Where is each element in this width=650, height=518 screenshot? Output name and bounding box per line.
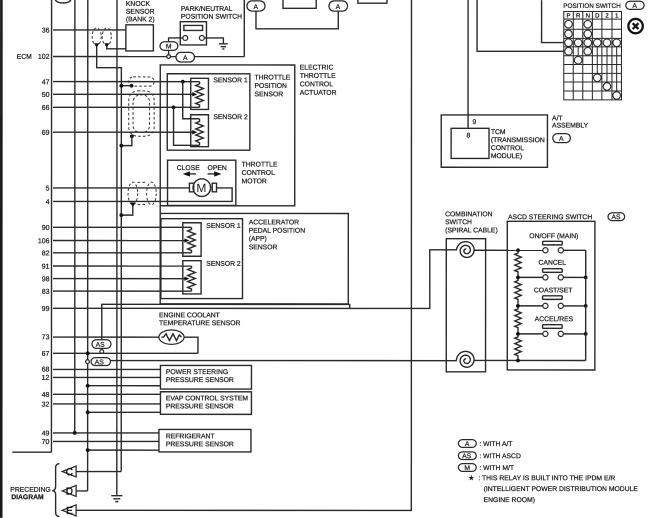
wire pin 32 bbox=[53, 403, 161, 405]
position switch column link D bbox=[596, 43, 598, 78]
svg-text:(SPIRAL CABLE): (SPIRAL CABLE) bbox=[445, 227, 498, 234]
wire C to drain bus bbox=[76, 471, 121, 473]
knock sensor shield ring 1 bbox=[92, 28, 101, 46]
ASCD steering switch box bbox=[507, 221, 595, 370]
wire AS1 to ASCD feed bbox=[102, 304, 350, 339]
AS option oval 1 bbox=[92, 340, 111, 349]
junction on drain bus bbox=[119, 213, 123, 217]
junction on resistor column bbox=[516, 275, 520, 279]
APP sensor 2 box bbox=[183, 261, 201, 294]
svg-text:A: A bbox=[253, 4, 258, 11]
svg-text:POSITION SWITCH: POSITION SWITCH bbox=[181, 14, 242, 21]
legend star note bbox=[468, 474, 638, 504]
svg-text:SENSOR 2: SENSOR 2 bbox=[213, 114, 248, 121]
svg-text:SENSOR 1: SENSOR 1 bbox=[206, 223, 241, 230]
svg-text:ELECTRIC: ELECTRIC bbox=[300, 64, 334, 71]
svg-text:50: 50 bbox=[42, 92, 50, 99]
wire pin 68 bbox=[53, 368, 161, 370]
svg-text:A: A bbox=[559, 136, 564, 143]
wire pin 4 to motor bbox=[53, 188, 232, 202]
TPS lower shield drain connection bbox=[130, 134, 134, 138]
cut-off box fragment top right of centre bbox=[358, 0, 387, 3]
junction on resistor column bbox=[516, 304, 520, 308]
svg-text:98: 98 bbox=[42, 276, 50, 283]
ACCEL contact right bbox=[558, 331, 563, 336]
accelerator pedal position sensor outer box bbox=[160, 206, 348, 304]
CANCEL contact right bbox=[558, 275, 563, 280]
svg-text:36: 36 bbox=[42, 28, 50, 35]
connector triangle D bbox=[62, 485, 76, 497]
svg-text:EVAP CONTROL SYSTEM: EVAP CONTROL SYSTEM bbox=[166, 395, 249, 402]
wire spiral top to ON/OFF bbox=[474, 249, 543, 251]
AS option oval 2 bbox=[91, 358, 110, 367]
legend AS oval bbox=[458, 452, 521, 460]
wire CANCEL right to bus bbox=[563, 276, 585, 278]
svg-text:4: 4 bbox=[46, 199, 50, 206]
svg-text:A: A bbox=[183, 55, 188, 62]
motor shield drain triangle bbox=[130, 203, 136, 207]
svg-text:ASCD STEERING SWITCH: ASCD STEERING SWITCH bbox=[508, 214, 592, 221]
ECM U1 right edge bbox=[50, 0, 52, 452]
junction on right bus bbox=[584, 304, 588, 308]
wire bus B stub to refrigerant sensor bbox=[88, 449, 159, 451]
power steering pressure sensor box bbox=[160, 365, 251, 389]
svg-text:: WITH ASCD: : WITH ASCD bbox=[479, 453, 521, 460]
svg-text:102: 102 bbox=[38, 54, 50, 61]
svg-text:69: 69 bbox=[42, 130, 50, 137]
wire E across bottom bbox=[76, 0, 411, 510]
svg-text:AS: AS bbox=[612, 214, 622, 221]
svg-text:SENSOR: SENSOR bbox=[254, 91, 283, 98]
shield drain bus wire (x=121.3) bbox=[97, 46, 122, 471]
wire pin 36 to knock sensor bbox=[53, 29, 126, 31]
svg-text:SENSOR: SENSOR bbox=[126, 9, 155, 16]
svg-text:83: 83 bbox=[42, 289, 50, 296]
svg-text:47: 47 bbox=[42, 79, 50, 86]
svg-text:DIAGRAM: DIAGRAM bbox=[11, 494, 44, 501]
wire TPS lower shield drain to bus bbox=[121, 136, 132, 145]
svg-text:D: D bbox=[595, 13, 600, 20]
svg-text:CONTROL: CONTROL bbox=[242, 170, 275, 177]
svg-text:CONTROL: CONTROL bbox=[491, 145, 524, 152]
svg-text:PRECEDING: PRECEDING bbox=[10, 487, 50, 494]
motor brush right bbox=[212, 183, 216, 192]
A option oval at position switch bbox=[626, 1, 644, 10]
svg-text:: WITH A/T: : WITH A/T bbox=[479, 441, 512, 448]
wire ACCEL left bbox=[518, 333, 543, 335]
svg-text:ENGINE COOLANT: ENGINE COOLANT bbox=[159, 312, 220, 319]
APP sensors box bbox=[161, 219, 243, 299]
svg-text:CANCEL: CANCEL bbox=[538, 260, 566, 267]
svg-text:67: 67 bbox=[42, 351, 50, 358]
svg-text:OPEN: OPEN bbox=[208, 165, 227, 172]
option connector circle left of AS2 bbox=[86, 360, 90, 364]
shield drain triangle left bbox=[94, 43, 99, 47]
wire pin 73 to coolant sensor bbox=[53, 336, 159, 338]
svg-text:D: D bbox=[66, 487, 73, 498]
svg-text:: THIS RELAY IS BUILT INTO THE: : THIS RELAY IS BUILT INTO THE IPDM E/R bbox=[478, 475, 615, 482]
shield drain triangle right bbox=[104, 43, 109, 47]
TPS shield drain connection bbox=[130, 84, 134, 88]
TPS sensor 2 box bbox=[191, 115, 209, 147]
park/neutral switch slot bbox=[184, 25, 203, 30]
ACCEL contact left bbox=[543, 331, 548, 336]
wire 102 riser to top bbox=[243, 0, 245, 57]
wire pin 83 bbox=[53, 290, 192, 292]
svg-text:2: 2 bbox=[605, 13, 609, 20]
option connector circle on wire 102 bbox=[167, 55, 171, 59]
svg-text:91: 91 bbox=[42, 264, 50, 271]
park/neutral contact right bbox=[199, 36, 204, 41]
wire pin 5 to motor bbox=[53, 187, 189, 189]
junction on bus B bbox=[86, 410, 90, 414]
svg-text:1: 1 bbox=[615, 13, 619, 20]
wire pin 49 bbox=[53, 432, 159, 434]
svg-text:A: A bbox=[336, 4, 341, 11]
svg-text:(INTELLIGENT POWER DISTRIBUTIO: (INTELLIGENT POWER DISTRIBUTION MODULE bbox=[484, 486, 639, 493]
TPS shield tube lower inner bbox=[133, 95, 150, 133]
wire pin 50 bbox=[53, 93, 194, 95]
svg-text:ACTUATOR: ACTUATOR bbox=[300, 90, 337, 97]
svg-text:SWITCH: SWITCH bbox=[445, 219, 472, 226]
svg-text:A: A bbox=[632, 3, 637, 10]
svg-text:COAST/SET: COAST/SET bbox=[534, 287, 573, 294]
svg-text:5: 5 bbox=[46, 186, 50, 193]
junction wire 49 and bus A bbox=[73, 431, 77, 435]
cut-off box fragment top middle bbox=[283, 0, 316, 8]
wiper arrow APP sensor 2 bbox=[184, 276, 189, 280]
junction on bus B bbox=[86, 448, 90, 452]
wire bracket linking A ovals bbox=[256, 11, 338, 29]
refrigerant pressure sensor box bbox=[159, 429, 251, 452]
svg-text:9: 9 bbox=[472, 119, 476, 126]
throttle motor M1 circle bbox=[193, 179, 211, 197]
wire pin 66 bbox=[53, 106, 200, 108]
legend M oval bbox=[458, 464, 514, 472]
wire AS2 to spiral cable bbox=[110, 360, 456, 362]
svg-text:M: M bbox=[196, 181, 206, 195]
svg-text:SENSOR 1: SENSOR 1 bbox=[213, 77, 248, 84]
COAST contact right bbox=[558, 303, 563, 308]
spiral cable coil top bbox=[456, 242, 474, 258]
svg-text:POWER STEERING: POWER STEERING bbox=[166, 369, 228, 376]
ASCD right return bus bbox=[585, 250, 587, 360]
wiper arrow sensor 2 bbox=[192, 130, 197, 134]
wire spiral bottom to return bus bbox=[473, 359, 585, 361]
junction wire 47 to sensor2 feed bbox=[181, 80, 185, 84]
wire pin 70 bbox=[53, 440, 159, 442]
junction on bus B bbox=[86, 384, 90, 388]
close arrow bbox=[183, 171, 196, 176]
CANCEL contact left bbox=[543, 275, 548, 280]
vertical bus wire C to ground (x=116.9) bbox=[116, 0, 118, 495]
wire TPS shield stub to drain bus bbox=[121, 85, 131, 87]
wire pin 91 bbox=[53, 265, 191, 267]
wire COAST right to bus bbox=[563, 305, 585, 307]
svg-text:ENGINE ROOM): ENGINE ROOM) bbox=[484, 497, 535, 504]
wire TCM feed bbox=[467, 0, 469, 128]
svg-text:P: P bbox=[566, 13, 571, 20]
wire pin 106 bbox=[53, 240, 186, 242]
svg-text:E: E bbox=[66, 506, 73, 517]
COAST/SET switch capsule bbox=[543, 296, 563, 300]
wire ACCEL right to bus bbox=[563, 333, 585, 335]
svg-text:AS: AS bbox=[462, 453, 472, 460]
svg-text:POSITION SWITCH: POSITION SWITCH bbox=[563, 3, 621, 10]
wire pin 82 bbox=[53, 252, 191, 254]
junction on drain bus bbox=[119, 144, 123, 148]
wire pin 90 bbox=[53, 226, 191, 228]
svg-text:N: N bbox=[585, 13, 590, 20]
svg-text:THROTTLE: THROTTLE bbox=[242, 161, 278, 168]
legend A oval bbox=[458, 440, 512, 448]
vertical bus wire B (x=87.7) bbox=[87, 0, 89, 491]
M option oval bbox=[160, 42, 178, 55]
svg-text:A: A bbox=[465, 441, 470, 448]
svg-text:AS: AS bbox=[95, 359, 105, 366]
svg-text:PRESSURE SENSOR: PRESSURE SENSOR bbox=[166, 403, 234, 410]
svg-text:106: 106 bbox=[38, 238, 50, 245]
connector oval fragment at top edge bbox=[55, 0, 70, 3]
vertical bus wire A (x=74.8) bbox=[74, 0, 76, 433]
junction on right bus bbox=[584, 275, 588, 279]
svg-text:70: 70 bbox=[42, 439, 50, 446]
TCM outer box bbox=[441, 115, 547, 167]
ON/OFF contact right bbox=[558, 248, 563, 253]
page left border bar bbox=[0, 0, 3, 518]
svg-text:ECM: ECM bbox=[17, 54, 32, 61]
svg-text:★: ★ bbox=[468, 474, 474, 482]
A option oval on wire 102 bbox=[176, 52, 195, 62]
wire pin 12 bbox=[53, 376, 161, 378]
svg-text:(APP): (APP) bbox=[249, 236, 267, 243]
position switch header letters bbox=[566, 13, 619, 20]
COAST contact left bbox=[543, 303, 548, 308]
position switch column link 2 bbox=[606, 43, 608, 87]
wire bus B stub to power steering sensor bbox=[88, 385, 161, 387]
svg-text:THROTTLE: THROTTLE bbox=[300, 73, 336, 80]
svg-text:AS: AS bbox=[96, 342, 106, 349]
svg-text:C: C bbox=[66, 467, 73, 478]
A option oval top-right bbox=[329, 1, 348, 11]
svg-text:MODULE): MODULE) bbox=[491, 153, 522, 160]
TPS sensor 1 box bbox=[191, 78, 209, 109]
svg-text:A/T: A/T bbox=[552, 115, 563, 122]
svg-text:SENSOR 2: SENSOR 2 bbox=[206, 261, 241, 268]
wire sensor 2 supply feed bbox=[183, 82, 200, 119]
A option oval at A/T assembly bbox=[553, 134, 571, 143]
junction wire 66 branch bbox=[172, 105, 176, 109]
junction resistor ladder bottom bbox=[516, 359, 520, 363]
wire bus B stub to EVAP sensor bbox=[88, 411, 161, 413]
svg-text:REFRIGERANT: REFRIGERANT bbox=[166, 433, 215, 440]
svg-text:8: 8 bbox=[467, 133, 471, 140]
svg-text:KNOCK: KNOCK bbox=[126, 1, 151, 8]
wire ON/OFF right to bus bbox=[563, 249, 585, 251]
svg-text:PEDAL POSITION: PEDAL POSITION bbox=[249, 228, 305, 235]
APP sensor 1 resistor R3 bbox=[188, 227, 196, 253]
connector triangle C bbox=[62, 466, 76, 478]
wiper arrow APP sensor 1 bbox=[184, 238, 189, 242]
wire COAST left bbox=[518, 305, 543, 307]
position switch column link 1 bbox=[616, 43, 618, 96]
position switch contacts bbox=[565, 20, 621, 99]
knock sensor K1 box bbox=[126, 25, 154, 51]
wire 66 branch to sensor 2 low bbox=[174, 107, 200, 145]
circled X symbol bbox=[628, 19, 642, 33]
CANCEL switch capsule bbox=[543, 269, 563, 273]
svg-text:73: 73 bbox=[42, 334, 50, 341]
AS option oval at ASCD switch bbox=[608, 213, 625, 221]
wire pin 69 bbox=[53, 131, 194, 133]
wire right contact to ground bbox=[204, 38, 223, 44]
svg-text:68: 68 bbox=[42, 367, 50, 374]
wire shield drain right to knock sensor case bbox=[107, 46, 126, 48]
motor shield ring 2 bbox=[147, 182, 157, 205]
motor shield ring 1 bbox=[128, 182, 138, 205]
spiral cable coil bottom bbox=[456, 351, 474, 367]
junction at resistor column top bbox=[516, 248, 520, 252]
svg-text:SENSOR: SENSOR bbox=[249, 244, 278, 251]
svg-text:32: 32 bbox=[42, 402, 50, 409]
svg-text:POSITION: POSITION bbox=[254, 83, 287, 90]
wire thermistor return to pin 67 bbox=[184, 337, 198, 353]
wire motor shield drain to bus bbox=[121, 205, 133, 215]
ground symbol at park/neutral switch bbox=[219, 44, 228, 49]
svg-text:ASSEMBLY: ASSEMBLY bbox=[552, 122, 589, 129]
svg-text:M: M bbox=[464, 465, 470, 472]
knock sensor shield ring 2 bbox=[102, 28, 111, 46]
svg-text:TCM: TCM bbox=[491, 129, 506, 136]
ASCD resistor ladder bbox=[515, 250, 521, 360]
wire left contact to M oval bbox=[169, 38, 183, 42]
svg-text:90: 90 bbox=[42, 225, 50, 232]
TPS sensor 1 resistor R1 bbox=[196, 82, 204, 108]
svg-text:COMBINATION: COMBINATION bbox=[445, 211, 493, 218]
combination switch spiral cable box bbox=[446, 239, 485, 372]
svg-text:49: 49 bbox=[42, 431, 50, 438]
junction on drain bus bbox=[119, 84, 123, 88]
A option oval top-left bbox=[247, 1, 265, 11]
throttle control motor box bbox=[168, 160, 236, 205]
motor brush left bbox=[189, 183, 193, 192]
svg-text:PARK/NEUTRAL: PARK/NEUTRAL bbox=[181, 6, 233, 13]
position switch column link R bbox=[577, 43, 579, 60]
ground symbol G2 bbox=[111, 496, 122, 502]
coolant sensor thermistor RT1 bbox=[159, 330, 184, 344]
svg-text:ACCELERATOR: ACCELERATOR bbox=[249, 219, 299, 226]
svg-text:ACCEL/RES: ACCEL/RES bbox=[535, 316, 574, 323]
ECM U1 bottom edge bbox=[12, 451, 51, 453]
junction on resistor column bbox=[516, 332, 520, 336]
APP sensor 1 box bbox=[183, 223, 201, 257]
svg-text:PRESSURE SENSOR: PRESSURE SENSOR bbox=[166, 441, 234, 448]
ON/OFF switch capsule bbox=[543, 241, 563, 245]
electric throttle control actuator box bbox=[160, 65, 295, 206]
connector triangle E bbox=[62, 505, 76, 517]
wire CANCEL left bbox=[518, 276, 543, 278]
svg-text:99: 99 bbox=[42, 306, 50, 313]
park/neutral position switch S1 box bbox=[180, 22, 206, 45]
wire pin 47 bbox=[53, 81, 199, 83]
ACCEL/RES switch capsule bbox=[543, 325, 563, 329]
wire pin 102 bbox=[53, 56, 244, 58]
preceding diagram brace bbox=[52, 464, 59, 517]
wire pin 98 bbox=[53, 278, 186, 280]
wire D to bus B bbox=[76, 490, 88, 492]
APP sensor 2 resistor R4 bbox=[188, 266, 196, 291]
svg-text:48: 48 bbox=[42, 392, 50, 399]
svg-text:R: R bbox=[576, 13, 581, 20]
svg-text:THROTTLE: THROTTLE bbox=[254, 74, 290, 81]
svg-text:12: 12 bbox=[42, 375, 50, 382]
TPS sensor 2 resistor R2 bbox=[196, 119, 204, 146]
svg-text:66: 66 bbox=[42, 105, 50, 112]
junction wire 67 and bus B bbox=[86, 351, 90, 355]
wire pin 67 bbox=[53, 352, 198, 354]
TPS shield tube upper bbox=[129, 77, 154, 86]
svg-text:PRESSURE SENSOR: PRESSURE SENSOR bbox=[166, 377, 234, 384]
svg-text:ON/OFF (MAIN): ON/OFF (MAIN) bbox=[529, 233, 578, 240]
svg-text:(BANK 2): (BANK 2) bbox=[126, 16, 155, 23]
position switch table grid bbox=[564, 11, 622, 99]
svg-text:MOTOR: MOTOR bbox=[242, 178, 267, 185]
ON/OFF contact left bbox=[543, 248, 548, 253]
EVAP control system pressure sensor box bbox=[160, 392, 251, 415]
open arrow bbox=[208, 171, 222, 176]
junction on right bus bbox=[584, 332, 588, 336]
svg-text:82: 82 bbox=[42, 250, 50, 257]
svg-text:TEMPERATURE SENSOR: TEMPERATURE SENSOR bbox=[159, 320, 241, 327]
svg-text:M: M bbox=[166, 44, 172, 51]
wire pin 48 bbox=[53, 393, 160, 395]
throttle position sensor box bbox=[167, 74, 250, 150]
motor shield link dashes bbox=[138, 181, 147, 183]
wire position switch row 4 bbox=[477, 0, 564, 51]
svg-text:: WITH M/T: : WITH M/T bbox=[479, 465, 514, 472]
park/neutral contact left bbox=[183, 36, 188, 41]
wiper arrow sensor 1 bbox=[192, 92, 197, 96]
wire pin 99 ASCD feed bbox=[53, 250, 457, 309]
svg-text:CLOSE: CLOSE bbox=[177, 165, 201, 172]
wire position switch row 3 bbox=[542, 0, 564, 43]
svg-text:CONTROL: CONTROL bbox=[300, 81, 333, 88]
TPS shield tube lower outer bbox=[129, 91, 154, 136]
svg-text:(TRANSMISSION: (TRANSMISSION bbox=[491, 137, 545, 144]
TCM inner box bbox=[451, 128, 489, 158]
option connector circle below AS1 bbox=[100, 350, 104, 354]
